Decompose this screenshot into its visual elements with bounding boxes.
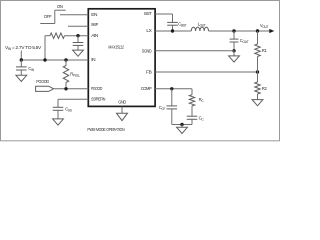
node compensation ground junction xyxy=(180,123,183,126)
node COUT junction xyxy=(232,29,235,32)
wire EN xyxy=(60,14,88,16)
svg-text:ON: ON xyxy=(57,4,63,9)
wire PGOOD xyxy=(54,88,89,90)
svg-text:OFF: OFF xyxy=(44,14,52,19)
capacitor AIN bypass (unlabelled) xyxy=(77,36,79,43)
ground GND pin xyxy=(117,113,128,120)
resistor AIN filter (unlabelled) xyxy=(50,33,65,38)
svg-text:CSS: CSS xyxy=(65,106,72,112)
node CBST/LX junction xyxy=(171,29,174,32)
inductor LOUT xyxy=(191,27,208,31)
wire COUT to SGND node xyxy=(233,42,235,51)
svg-text:SGND: SGND xyxy=(142,49,152,55)
svg-text:AIN: AIN xyxy=(91,33,99,39)
ground compensation xyxy=(177,127,188,133)
svg-text:PGOOD: PGOOD xyxy=(36,79,49,84)
wire AIN cap to ground xyxy=(77,45,79,50)
VOUT output arrow xyxy=(269,29,274,33)
wire comp ground stub xyxy=(181,125,183,128)
wire SKIP xyxy=(68,25,88,27)
resistor RC xyxy=(189,95,194,106)
svg-text:LOUT: LOUT xyxy=(198,21,206,27)
svg-text:BST: BST xyxy=(144,11,151,17)
resistor R1 xyxy=(257,31,259,44)
svg-text:MAX15112: MAX15112 xyxy=(108,45,124,50)
wire COUT ground stub xyxy=(233,51,235,56)
svg-text:R2: R2 xyxy=(262,86,268,91)
wire AIN xyxy=(65,35,89,37)
wire COMP xyxy=(155,88,192,90)
wire CSS to ground xyxy=(57,110,59,119)
ground CSS xyxy=(53,119,64,125)
wire CCF to bottom rail xyxy=(171,109,173,125)
ground CIN xyxy=(16,75,27,81)
node AIN filter junction xyxy=(76,34,79,37)
svg-text:COMP: COMP xyxy=(141,86,152,92)
svg-text:SS/REFIN: SS/REFIN xyxy=(91,96,106,102)
op-amp U1 MAX15112 regulator IC body xyxy=(88,9,155,107)
capacitor CC xyxy=(191,106,193,116)
svg-text:VIN = 2.7V TO 5.5V: VIN = 2.7V TO 5.5V xyxy=(5,45,41,51)
svg-text:PGOOD: PGOOD xyxy=(91,86,103,92)
resistor RPULL xyxy=(65,60,67,66)
svg-text:CIN: CIN xyxy=(28,66,34,72)
node VIN/CIN junction xyxy=(20,58,23,61)
wire compensation bottom rail xyxy=(172,124,192,126)
wire LOUT to VOUT xyxy=(209,30,270,32)
svg-text:RPULL: RPULL xyxy=(70,71,80,77)
ground AIN bypass xyxy=(73,50,84,56)
PGOOD output tag symbol xyxy=(36,86,54,91)
svg-text:VOUT: VOUT xyxy=(260,23,269,29)
ground R2 xyxy=(252,100,263,106)
wire SS/REFIN xyxy=(58,98,88,100)
ON/OFF logic-level input symbol xyxy=(55,9,66,11)
node PGOOD/RPULL junction xyxy=(64,87,67,90)
svg-text:PWM MODE OPERATION: PWM MODE OPERATION xyxy=(87,127,124,132)
node RPULL junction xyxy=(64,58,67,61)
svg-text:R1: R1 xyxy=(262,48,268,53)
resistor R2 xyxy=(257,72,259,82)
wire CC to bottom rail xyxy=(191,119,193,124)
node SGND/COUT junction xyxy=(232,49,235,52)
svg-text:SKIP: SKIP xyxy=(91,22,98,28)
wire CIN to ground xyxy=(20,70,22,75)
svg-text:CC: CC xyxy=(199,115,205,121)
node AIN branch junction xyxy=(43,58,46,61)
wire AIN branch from IN rail xyxy=(44,36,46,60)
capacitor COUT xyxy=(233,31,235,39)
svg-text:GND: GND xyxy=(118,100,126,106)
wire BST xyxy=(155,13,172,15)
node FB divider junction xyxy=(256,70,259,73)
wire VIN drop xyxy=(20,51,22,61)
svg-text:CCF: CCF xyxy=(159,105,166,111)
wire SGND xyxy=(155,50,234,52)
capacitor CBST xyxy=(167,21,178,23)
svg-text:CBST: CBST xyxy=(178,22,186,28)
capacitor CSS xyxy=(57,99,59,107)
wire FB xyxy=(155,71,257,73)
capacitor CIN xyxy=(20,60,22,67)
ground COUT xyxy=(229,56,240,62)
wire LX to inductor xyxy=(155,30,191,32)
svg-text:RC: RC xyxy=(199,97,205,103)
node CCF junction xyxy=(170,87,173,90)
wire IN rail xyxy=(21,59,88,61)
wire GND pin stub xyxy=(121,107,123,114)
svg-text:FB: FB xyxy=(146,69,151,75)
node VOUT/R1 junction xyxy=(256,29,259,32)
svg-text:COUT: COUT xyxy=(240,38,249,44)
capacitor CCF xyxy=(171,89,173,106)
